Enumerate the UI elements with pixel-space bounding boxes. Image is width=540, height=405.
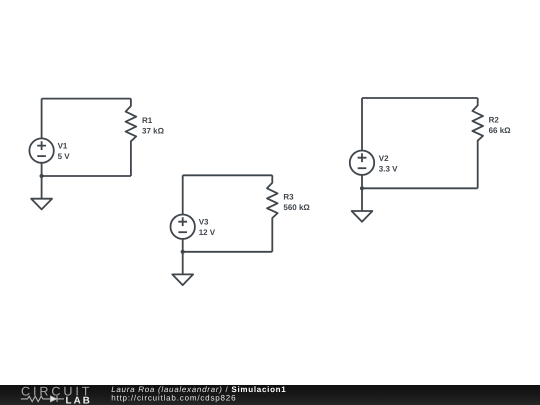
svg-text:LAB: LAB xyxy=(66,396,92,405)
svg-text:3.3 V: 3.3 V xyxy=(379,164,398,173)
svg-text:V2: V2 xyxy=(379,154,389,163)
logo resistor-diode symbol xyxy=(21,396,64,402)
svg-text:http://circuitlab.com/cdsp826: http://circuitlab.com/cdsp826 xyxy=(111,394,236,403)
svg-text:V3: V3 xyxy=(199,218,209,227)
voltage source V1 xyxy=(29,138,53,162)
wire top of loop 1 (V1+ to R1 top) xyxy=(42,98,131,100)
node junction loop 2 xyxy=(181,250,185,254)
wire top of loop 2 (V3+ to R3 top) xyxy=(183,174,273,176)
svg-text:V1: V1 xyxy=(58,141,68,150)
ground loop 1 xyxy=(31,176,52,209)
wire V3 negative terminal to bottom node xyxy=(182,239,184,252)
resistor R3 xyxy=(267,175,278,252)
wire left of loop 1 (top wire to V1 positive terminal) xyxy=(41,99,43,139)
label V3 12 V xyxy=(199,218,216,237)
ground loop 2 xyxy=(172,252,193,285)
wire bottom of loop 3 (node to R2 bottom) xyxy=(362,187,478,189)
svg-text:12 V: 12 V xyxy=(199,228,216,237)
voltage source V3 xyxy=(171,215,195,239)
wire bottom of loop 1 (node to R1 bottom) xyxy=(42,175,131,177)
voltage source V2 xyxy=(350,151,374,175)
wire left of loop 2 (top wire to V3 positive terminal) xyxy=(182,175,184,214)
svg-text:560 kΩ: 560 kΩ xyxy=(283,203,310,212)
label R1 37 kOhm xyxy=(142,116,165,135)
footer bar xyxy=(0,385,540,405)
ground loop 3 xyxy=(352,188,373,221)
node junction loop 3 xyxy=(360,186,364,190)
label V2 3.3 V xyxy=(379,154,398,173)
wire left of loop 3 (top wire to V2 positive terminal) xyxy=(361,98,363,151)
wire bottom of loop 2 (node to R3 bottom) xyxy=(183,251,273,253)
resistor R1 xyxy=(126,99,137,176)
svg-text:R1: R1 xyxy=(142,116,153,125)
wire V2 negative terminal to bottom node xyxy=(361,175,363,188)
label R2 66 kOhm xyxy=(489,115,512,134)
svg-text:5 V: 5 V xyxy=(58,152,71,161)
svg-text:66 kΩ: 66 kΩ xyxy=(489,126,512,135)
wire V1 negative terminal to bottom node xyxy=(41,163,43,176)
resistor R2 xyxy=(472,98,483,188)
svg-text:37 kΩ: 37 kΩ xyxy=(142,126,165,135)
label V1 5 V xyxy=(58,141,71,160)
svg-text:R3: R3 xyxy=(283,193,294,202)
svg-text:R2: R2 xyxy=(489,115,500,124)
label R3 560 kOhm xyxy=(283,193,310,212)
node junction loop 1 xyxy=(40,174,44,178)
wire top of loop 3 (V2+ to R2 top) xyxy=(362,97,478,99)
